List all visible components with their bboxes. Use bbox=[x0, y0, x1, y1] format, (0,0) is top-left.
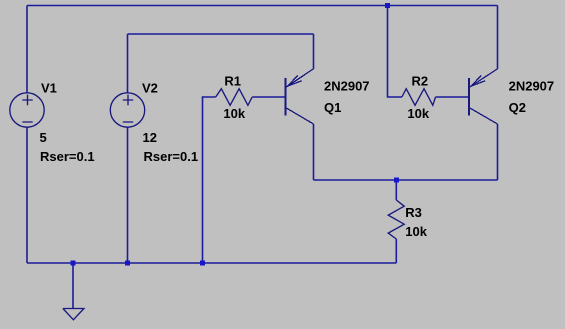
junction ground rail / ground bbox=[71, 261, 76, 266]
transistor Q1 bbox=[286, 69, 314, 124]
wire ground stub bbox=[72, 263, 74, 308]
resistor R3 bbox=[388, 200, 404, 239]
svg-text:V2: V2 bbox=[142, 81, 158, 96]
junction ground rail / V2 bbox=[125, 261, 130, 266]
svg-text:10k: 10k bbox=[223, 106, 245, 121]
wire R3 bottom lead bbox=[395, 239, 397, 263]
wire V1 bottom to ground rail bbox=[26, 127, 28, 264]
svg-text:Rser=0.1: Rser=0.1 bbox=[144, 149, 199, 164]
wire Q1 collector vertical bbox=[313, 124, 315, 180]
svg-text:Rser=0.1: Rser=0.1 bbox=[40, 149, 95, 164]
wire R3 top lead bbox=[395, 180, 397, 200]
wire bottom ground rail bbox=[27, 262, 396, 264]
wire second rail V2 to Q1 emitter bbox=[128, 33, 314, 35]
svg-text:12: 12 bbox=[143, 130, 157, 145]
svg-text:Q2: Q2 bbox=[509, 100, 526, 115]
wire V2 top drop bbox=[127, 34, 129, 94]
svg-text:10k: 10k bbox=[407, 106, 429, 121]
svg-text:2N2907: 2N2907 bbox=[324, 79, 370, 94]
wire collector rail to Q2 bbox=[314, 179, 498, 181]
voltage source V1 bbox=[10, 93, 44, 127]
voltage source V2 bbox=[110, 93, 144, 127]
wire V1 top drop bbox=[26, 6, 28, 94]
resistor R1 bbox=[216, 89, 253, 106]
svg-text:10k: 10k bbox=[405, 224, 427, 239]
wire Q2 emitter vertical bbox=[497, 6, 499, 70]
wire V2 bottom to ground rail bbox=[127, 127, 129, 264]
svg-text:Q1: Q1 bbox=[324, 100, 341, 115]
svg-text:V1: V1 bbox=[41, 81, 57, 96]
wire Q2 collector vertical bbox=[497, 124, 499, 180]
svg-text:2N2907: 2N2907 bbox=[509, 79, 555, 94]
ground bbox=[63, 309, 84, 320]
wire top rail V1 to Q2 emitter bbox=[27, 5, 498, 7]
svg-text:5: 5 bbox=[40, 130, 47, 145]
svg-text:R3: R3 bbox=[405, 205, 422, 220]
resistor R2 bbox=[402, 89, 436, 106]
wire R1 left leg down to ground rail bbox=[203, 97, 216, 263]
junction collector rail / R3 bbox=[394, 178, 399, 183]
junction ground rail / R1 bbox=[200, 261, 205, 266]
junction top rail / R2 bbox=[385, 3, 390, 8]
transistor Q2 bbox=[469, 69, 498, 124]
wire R2 drop from top rail bbox=[388, 6, 402, 98]
svg-text:R1: R1 bbox=[224, 74, 241, 89]
svg-text:R2: R2 bbox=[412, 74, 429, 89]
wire R1 to Q1 base bbox=[252, 96, 285, 98]
wire R2 to Q2 base bbox=[436, 96, 470, 98]
wire Q1 emitter vertical bbox=[313, 34, 315, 69]
